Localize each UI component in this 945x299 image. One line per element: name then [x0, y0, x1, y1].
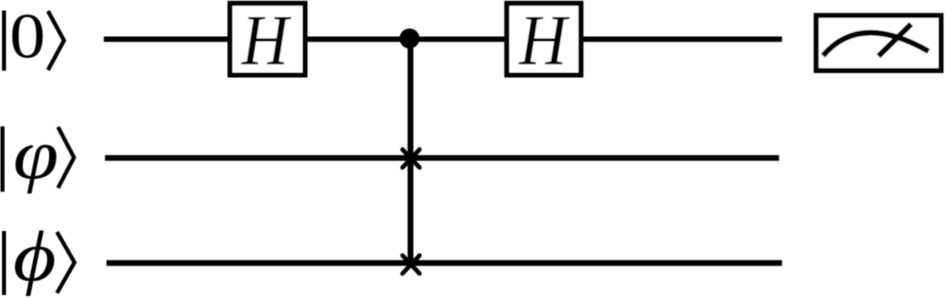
- wire control vertical: [408, 39, 414, 264]
- ket label |phi2>: [4, 217, 75, 296]
- wire q0: [104, 37, 782, 42]
- gate H2: [507, 0, 581, 79]
- svg-text:φ: φ: [13, 115, 59, 194]
- meter measurement box: [816, 16, 941, 71]
- ket label |phi1>: [3, 115, 75, 194]
- wire q1: [105, 155, 779, 161]
- wire q2: [107, 260, 783, 266]
- node control dot: [400, 29, 420, 49]
- meter needle: [879, 24, 912, 56]
- node swap cross q2: [403, 256, 420, 274]
- gate H1: [230, 0, 305, 80]
- ket label |0>: [4, 0, 64, 72]
- svg-text:H: H: [518, 0, 570, 79]
- svg-text:ϕ: ϕ: [13, 217, 56, 296]
- node swap cross q1: [403, 150, 420, 168]
- svg-text:0: 0: [10, 0, 46, 72]
- svg-text:H: H: [241, 0, 292, 80]
- meter arc: [823, 33, 929, 56]
